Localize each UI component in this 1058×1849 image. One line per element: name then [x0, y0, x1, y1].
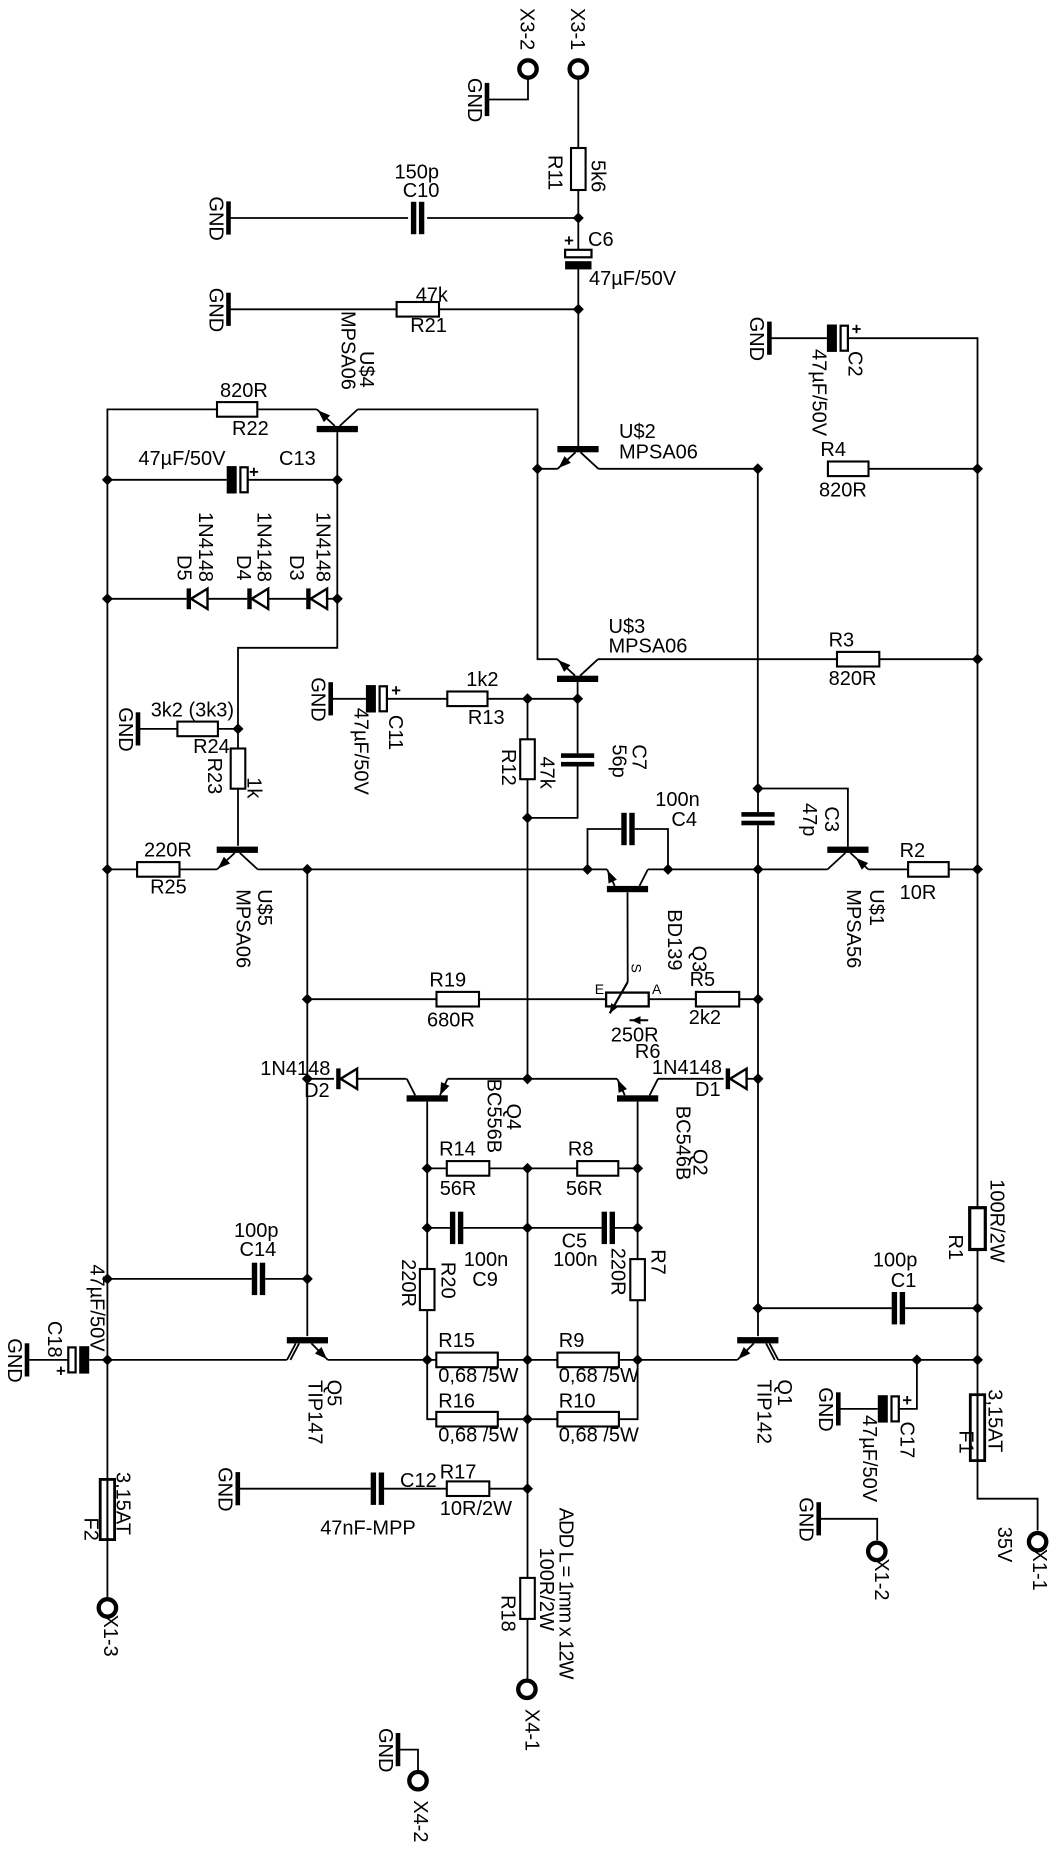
pad X4-2 — [409, 1772, 431, 1842]
wire — [427, 1360, 436, 1419]
resistor R18 — [497, 1548, 557, 1632]
svg-text:47µF/50V: 47µF/50V — [589, 268, 677, 290]
diode D1 1N4148 — [652, 1057, 747, 1101]
wire — [106, 599, 108, 870]
svg-text:C7: C7 — [628, 744, 650, 770]
junction — [102, 1354, 113, 1365]
svg-text:R23: R23 — [203, 758, 225, 795]
junction — [752, 864, 763, 875]
wire — [427, 1359, 436, 1361]
wire — [489, 1488, 527, 1490]
svg-text:1k2: 1k2 — [466, 669, 498, 691]
svg-text:47µF/50V: 47µF/50V — [138, 448, 226, 470]
resistor R23 — [203, 749, 264, 800]
svg-text:GND: GND — [814, 1387, 836, 1431]
junction — [522, 693, 533, 704]
trimmer R6 250R — [595, 964, 662, 1063]
svg-text:X3-2: X3-2 — [516, 8, 538, 50]
capacitor C1 — [873, 1250, 918, 1325]
svg-text:5k6: 5k6 — [587, 160, 609, 192]
wire — [106, 480, 108, 599]
wire — [248, 479, 338, 481]
resistor R19 — [427, 970, 479, 1032]
svg-text:0,68 /5W: 0,68 /5W — [438, 1425, 518, 1447]
wire — [619, 1360, 638, 1419]
diode D2 1N4148 — [260, 1058, 357, 1102]
resistor R21 — [397, 284, 449, 337]
svg-text:R8: R8 — [568, 1139, 594, 1161]
svg-text:C9: C9 — [472, 1269, 498, 1291]
fuse F1 3,15AT — [955, 1389, 1006, 1460]
wire — [618, 1167, 637, 1169]
resistor R10 — [557, 1391, 639, 1447]
wire — [528, 1359, 558, 1361]
wire — [977, 869, 979, 1207]
capacitor C5 — [553, 1212, 615, 1271]
svg-text:C6: C6 — [588, 229, 614, 251]
wire — [649, 998, 696, 1000]
svg-text:R10: R10 — [559, 1391, 596, 1413]
svg-text:TIP142: TIP142 — [753, 1380, 775, 1444]
svg-text:1N4148: 1N4148 — [194, 512, 216, 582]
svg-text:Q4: Q4 — [502, 1104, 524, 1131]
capacitor C12 47nF-MPP — [320, 1470, 437, 1540]
svg-text:R19: R19 — [429, 970, 466, 992]
wire — [427, 217, 578, 219]
wire — [229, 308, 397, 310]
wire — [577, 269, 579, 309]
svg-text:U$2: U$2 — [619, 421, 656, 443]
pad X1-3 — [99, 1599, 121, 1657]
wire — [819, 1519, 878, 1540]
wire — [757, 869, 759, 999]
ground — [114, 707, 138, 751]
svg-text:47µF/50V: 47µF/50V — [858, 1415, 880, 1503]
wire — [899, 1360, 917, 1409]
resistor R7 — [607, 1248, 669, 1301]
wire — [758, 868, 828, 870]
svg-text:BC556B: BC556B — [483, 1079, 505, 1154]
svg-text:R20: R20 — [437, 1262, 459, 1299]
resistor R13 — [447, 669, 504, 729]
wire — [498, 1359, 528, 1361]
svg-text:820R: 820R — [819, 479, 867, 501]
junction — [632, 1222, 643, 1233]
transistor U$4 MPSA06 — [317, 311, 377, 432]
wire — [527, 818, 529, 1079]
wire — [528, 698, 578, 700]
wire — [528, 1227, 602, 1229]
svg-text:47k: 47k — [416, 284, 449, 306]
capacitor C3 — [741, 803, 842, 836]
wire — [977, 469, 979, 659]
resistor R2 — [900, 840, 949, 904]
fuse F2 3,15AT — [80, 1472, 134, 1541]
junction — [302, 864, 313, 875]
wire — [868, 868, 908, 870]
svg-text:GND: GND — [745, 317, 767, 361]
svg-text:R21: R21 — [410, 315, 447, 337]
junction — [422, 1163, 433, 1174]
junction — [582, 864, 593, 875]
wire — [619, 1359, 638, 1361]
wire — [89, 1359, 107, 1361]
svg-text:X4-1: X4-1 — [520, 1709, 542, 1751]
wire — [588, 829, 622, 869]
wire — [306, 869, 308, 999]
wire — [138, 728, 177, 730]
capacitor C14 — [234, 1220, 279, 1295]
svg-text:100p: 100p — [873, 1250, 918, 1272]
wire — [577, 682, 579, 699]
wire — [778, 1359, 917, 1361]
svg-text:C13: C13 — [279, 448, 316, 470]
svg-text:100R/2W: 100R/2W — [535, 1548, 557, 1631]
svg-text:GND: GND — [374, 1728, 396, 1772]
junction — [102, 474, 113, 485]
svg-text:47µF/50V: 47µF/50V — [350, 708, 372, 796]
wire — [479, 998, 606, 1000]
junction — [102, 864, 113, 875]
wire — [238, 599, 337, 729]
svg-text:C18: C18 — [43, 1321, 65, 1358]
svg-text:X1-2: X1-2 — [870, 1558, 892, 1600]
svg-text:GND: GND — [307, 677, 329, 721]
svg-text:R11: R11 — [544, 155, 566, 190]
junction — [522, 1163, 533, 1174]
wire — [328, 1359, 427, 1361]
resistor R20 — [397, 1259, 459, 1310]
svg-text:R3: R3 — [829, 630, 855, 652]
svg-text:220R: 220R — [607, 1248, 629, 1296]
wire — [638, 1359, 738, 1361]
svg-text:TIP147: TIP147 — [304, 1380, 326, 1444]
resistor R16 — [436, 1391, 518, 1447]
svg-text:1N4148: 1N4148 — [253, 512, 275, 582]
svg-text:220R: 220R — [397, 1259, 419, 1307]
svg-text:E: E — [595, 981, 604, 997]
wire — [648, 868, 668, 870]
resistor R15 — [436, 1330, 518, 1387]
junction — [102, 1273, 113, 1284]
wire — [757, 789, 759, 813]
wire — [331, 698, 366, 700]
svg-text:R2: R2 — [900, 840, 926, 862]
svg-text:C10: C10 — [403, 180, 440, 202]
svg-text:0,68 /5W: 0,68 /5W — [438, 1365, 518, 1387]
junction — [752, 994, 763, 1005]
ground — [814, 1387, 838, 1431]
wire — [739, 998, 758, 1000]
wire — [577, 80, 579, 149]
svg-text:GND: GND — [204, 196, 226, 240]
wire — [577, 190, 579, 218]
electrolytic capacitor C17 — [858, 1395, 918, 1503]
wire — [757, 1079, 759, 1308]
svg-text:GND: GND — [795, 1497, 817, 1541]
transistor U$2 MPSA06 — [557, 421, 698, 469]
junction — [422, 1354, 433, 1365]
svg-text:100n: 100n — [553, 1249, 598, 1271]
junction — [522, 1414, 533, 1425]
transistor U$5 MPSA06 — [217, 847, 275, 969]
wire — [769, 337, 827, 339]
junction — [332, 474, 343, 485]
wire — [577, 309, 579, 446]
wire — [577, 218, 579, 250]
wire — [229, 217, 409, 219]
wire — [106, 1359, 108, 1479]
wire — [426, 1102, 428, 1169]
junction — [332, 593, 343, 604]
svg-text:U$1: U$1 — [865, 889, 887, 926]
junction — [522, 812, 533, 823]
wire — [426, 1310, 428, 1360]
junction — [573, 304, 584, 315]
wire — [463, 1227, 527, 1229]
wire — [107, 479, 226, 481]
ground — [204, 196, 228, 240]
junction — [632, 1354, 643, 1365]
wire — [528, 1418, 558, 1420]
svg-text:R24: R24 — [193, 736, 230, 758]
svg-text:47k: 47k — [536, 757, 558, 790]
junction — [422, 1222, 433, 1233]
junction — [752, 783, 763, 794]
svg-text:MPSA56: MPSA56 — [842, 889, 864, 968]
svg-text:56p: 56p — [607, 744, 629, 777]
wire — [757, 469, 759, 789]
ground — [3, 1338, 27, 1382]
wire — [668, 868, 758, 870]
wire — [598, 658, 837, 660]
ground — [745, 317, 769, 361]
svg-text:GND: GND — [114, 707, 136, 751]
junction — [972, 654, 983, 665]
wire — [637, 1300, 639, 1360]
wire — [598, 468, 757, 470]
svg-text:MPSA06: MPSA06 — [609, 636, 688, 658]
resistor R25 — [137, 839, 192, 898]
svg-text:U$5: U$5 — [253, 889, 275, 926]
svg-text:F1: F1 — [955, 1430, 977, 1453]
wire — [527, 779, 529, 818]
junction — [522, 1073, 533, 1084]
svg-text:10R/2W: 10R/2W — [440, 1498, 512, 1520]
svg-text:3,15AT: 3,15AT — [984, 1389, 1006, 1452]
pad X1-1 — [1028, 1533, 1050, 1591]
wire — [107, 868, 137, 870]
wire — [528, 1167, 578, 1169]
svg-text:D3: D3 — [285, 555, 307, 581]
wire — [439, 308, 578, 310]
svg-text:0,68 /5W: 0,68 /5W — [559, 1425, 639, 1447]
svg-text:47µF/50V: 47µF/50V — [85, 1264, 107, 1352]
wire — [747, 1078, 758, 1080]
pad X1-2 — [868, 1543, 892, 1601]
wire — [615, 1227, 638, 1229]
wire — [757, 999, 759, 1079]
pad X4-1 — [518, 1681, 542, 1752]
junction — [232, 723, 243, 734]
svg-text:47nF-MPP: 47nF-MPP — [320, 1518, 416, 1540]
svg-text:1N4148: 1N4148 — [652, 1057, 722, 1079]
wire — [448, 1078, 528, 1080]
resistor R17 — [440, 1462, 512, 1521]
junction — [972, 1303, 983, 1314]
svg-text:U$4: U$4 — [355, 351, 377, 388]
junction — [522, 1483, 533, 1494]
svg-text:R17: R17 — [440, 1462, 477, 1484]
transistor Q3 BD139 — [607, 869, 710, 972]
svg-text:R25: R25 — [150, 877, 187, 899]
wire — [538, 469, 558, 659]
svg-text:D4: D4 — [232, 555, 254, 581]
junction — [752, 1303, 763, 1314]
wire — [757, 1308, 759, 1336]
wire — [107, 1278, 251, 1280]
resistor R14 — [439, 1139, 489, 1201]
junction — [302, 994, 313, 1005]
svg-text:56R: 56R — [566, 1178, 603, 1200]
ground — [463, 78, 487, 122]
wire — [307, 1078, 334, 1080]
wire — [257, 408, 317, 410]
resistor R3 — [829, 630, 880, 690]
wire — [658, 1078, 724, 1080]
svg-text:MPSA06: MPSA06 — [619, 442, 698, 464]
wire — [307, 998, 436, 1000]
wire — [978, 1461, 1038, 1531]
wire — [758, 789, 848, 847]
wire — [336, 432, 338, 480]
resistor R8 — [566, 1139, 618, 1201]
ground — [374, 1728, 398, 1772]
wire — [489, 1167, 527, 1169]
transistor Q2 BC546B — [617, 1079, 711, 1181]
svg-text:GND: GND — [204, 288, 226, 332]
junction — [302, 1273, 313, 1284]
wire — [426, 1228, 428, 1269]
electrolytic capacitor C11 — [350, 685, 407, 795]
wire — [949, 868, 978, 870]
svg-text:Q1: Q1 — [773, 1379, 795, 1406]
wire — [848, 338, 978, 469]
resistor R1 — [944, 1179, 1008, 1262]
capacitor C9 — [450, 1212, 508, 1291]
resistor R4 — [819, 439, 869, 501]
svg-text:A: A — [652, 981, 662, 997]
svg-text:C3: C3 — [820, 806, 842, 832]
wire — [527, 1360, 529, 1489]
wire — [427, 1167, 447, 1169]
wire — [238, 1488, 371, 1490]
wire — [358, 409, 538, 468]
wire — [977, 1250, 979, 1395]
resistor R11 — [544, 148, 609, 192]
wire — [357, 1078, 406, 1080]
wire — [577, 699, 579, 754]
svg-text:Q5: Q5 — [323, 1380, 345, 1407]
wire — [106, 869, 108, 1360]
svg-text:S: S — [629, 964, 645, 973]
wire — [758, 1307, 892, 1309]
svg-text:10R: 10R — [900, 882, 937, 904]
svg-text:ADD L = 1mm x 12W: ADD L = 1mm x 12W — [555, 1508, 577, 1680]
wire — [258, 868, 308, 870]
wire — [426, 1168, 428, 1228]
wire — [27, 1359, 68, 1361]
resistor R24 — [151, 700, 234, 758]
svg-text:100n: 100n — [464, 1249, 509, 1271]
svg-text:47µF/50V: 47µF/50V — [807, 349, 829, 437]
wire — [268, 598, 306, 600]
svg-text:R14: R14 — [439, 1139, 476, 1161]
svg-text:C11: C11 — [384, 715, 406, 750]
ground — [214, 1467, 238, 1511]
svg-text:1N4148: 1N4148 — [260, 1058, 330, 1080]
svg-text:C17: C17 — [896, 1422, 918, 1459]
svg-text:GND: GND — [214, 1467, 236, 1511]
electrolytic capacitor C18 — [43, 1264, 108, 1375]
wire — [387, 698, 447, 700]
svg-text:2k2: 2k2 — [689, 1007, 721, 1029]
wire — [869, 468, 978, 470]
svg-text:X1-3: X1-3 — [99, 1615, 121, 1657]
wire — [757, 825, 759, 869]
svg-text:R1: R1 — [944, 1235, 966, 1261]
wire — [306, 1279, 308, 1336]
wire — [528, 767, 578, 818]
diode D5 1N4148 — [172, 512, 216, 609]
wire — [637, 1168, 639, 1259]
svg-text:D5: D5 — [172, 555, 194, 581]
svg-text:820R: 820R — [220, 380, 268, 402]
wire — [498, 1418, 528, 1420]
capacitor C10 — [395, 161, 440, 234]
svg-text:X4-2: X4-2 — [409, 1800, 431, 1842]
junction — [302, 1073, 313, 1084]
svg-text:C4: C4 — [671, 809, 697, 831]
capacitor C4 — [621, 789, 700, 845]
svg-text:C1: C1 — [891, 1270, 917, 1292]
electrolytic capacitor C2 — [807, 325, 865, 437]
svg-text:680R: 680R — [427, 1010, 475, 1032]
wire — [237, 789, 239, 846]
pad X3-2 — [516, 8, 538, 78]
svg-text:R12: R12 — [497, 749, 519, 786]
wire — [107, 1359, 286, 1361]
wire — [917, 1359, 978, 1361]
resistor R22 — [217, 380, 269, 440]
wire — [327, 598, 337, 600]
transistor U$3 MPSA06 — [557, 616, 687, 682]
junction — [572, 693, 583, 704]
svg-text:R15: R15 — [438, 1330, 475, 1352]
resistor R9 — [557, 1330, 639, 1387]
wire — [838, 1408, 878, 1410]
svg-text:R9: R9 — [559, 1330, 585, 1352]
wire — [588, 868, 608, 870]
ground — [307, 677, 331, 721]
svg-text:F2: F2 — [80, 1518, 102, 1541]
wire — [977, 659, 979, 869]
pad X3-1 — [566, 8, 588, 78]
wire — [265, 1278, 307, 1280]
svg-text:0,68 /5W: 0,68 /5W — [559, 1365, 639, 1387]
junction — [102, 593, 113, 604]
svg-text:R16: R16 — [438, 1391, 475, 1413]
